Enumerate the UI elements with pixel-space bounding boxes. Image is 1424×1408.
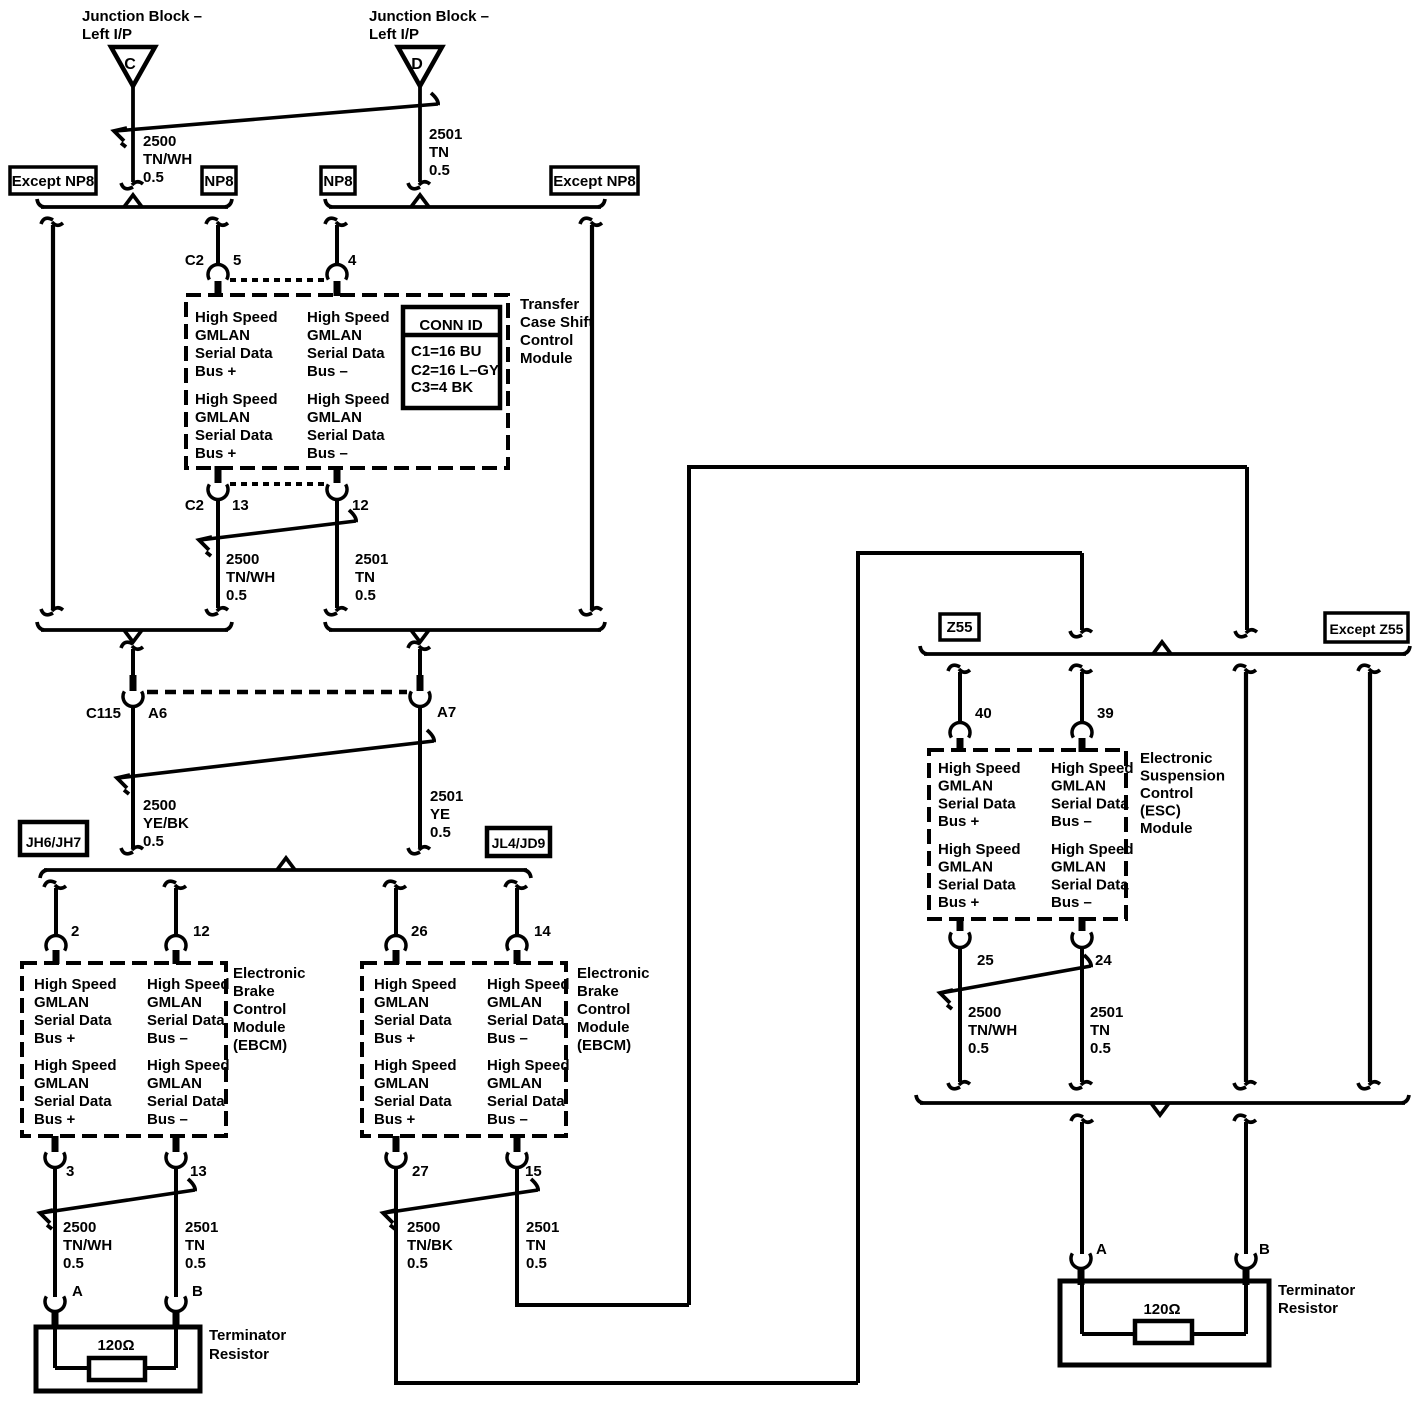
hook wire pin14: [505, 881, 517, 887]
svg-text:Case Shift: Case Shift: [520, 314, 593, 331]
CONN ID box: [403, 307, 500, 408]
dashed connector line C115: [147, 690, 407, 695]
wire to C115 A7: [418, 649, 422, 677]
svg-text:High Speed: High Speed: [34, 1057, 117, 1074]
svg-text:Resistor: Resistor: [1278, 1300, 1338, 1317]
svg-text:TN/WH: TN/WH: [226, 569, 275, 586]
wire 2500 from C: [131, 85, 135, 182]
svg-text:NP8: NP8: [323, 173, 352, 190]
svg-text:2500: 2500: [407, 1219, 440, 1236]
svg-text:Except NP8: Except NP8: [553, 173, 636, 190]
hook wire pin39: [1070, 665, 1082, 671]
connector cup pin 13b: [173, 1136, 180, 1152]
svg-text:24: 24: [1095, 952, 1112, 969]
hook wire pin2: [44, 881, 56, 887]
svg-text:0.5: 0.5: [429, 162, 450, 179]
svg-text:GMLAN: GMLAN: [1051, 859, 1106, 876]
hook end bypass right: [1358, 1083, 1370, 1089]
connector cup pin 3: [52, 1136, 59, 1152]
svg-text:Left I/P: Left I/P: [369, 26, 419, 43]
svg-text:12: 12: [352, 497, 369, 514]
connector cup C115 A6: [123, 691, 143, 706]
hook end of wire D: [408, 183, 420, 189]
svg-text:(EBCM): (EBCM): [233, 1037, 287, 1054]
svg-text:NP8: NP8: [204, 173, 233, 190]
svg-text:High Speed: High Speed: [147, 976, 230, 993]
svg-text:0.5: 0.5: [407, 1255, 428, 1272]
wire 2501 from pin12: [335, 499, 339, 608]
svg-text:GMLAN: GMLAN: [487, 1075, 542, 1092]
svg-text:Serial Data: Serial Data: [147, 1093, 225, 1110]
svg-text:2: 2: [71, 923, 79, 940]
svg-text:Module: Module: [1140, 820, 1193, 837]
svg-text:15: 15: [525, 1163, 542, 1180]
svg-text:Terminator: Terminator: [209, 1327, 286, 1344]
terminator resistor box 1: [36, 1327, 200, 1391]
svg-text:Serial Data: Serial Data: [1051, 876, 1129, 893]
svg-text:Control: Control: [233, 1001, 286, 1018]
svg-text:0.5: 0.5: [226, 587, 247, 604]
svg-text:Control: Control: [1140, 785, 1193, 802]
svg-text:0.5: 0.5: [968, 1040, 989, 1057]
hook end esc right: [1070, 1083, 1082, 1089]
wire 2501 TN esc: [1080, 947, 1084, 1082]
wire to C115 A6: [131, 649, 135, 677]
wire to pin 39: [1080, 672, 1084, 723]
svg-text:Bus +: Bus +: [34, 1111, 76, 1128]
svg-text:Junction Block –: Junction Block –: [369, 8, 489, 25]
svg-text:High Speed: High Speed: [938, 841, 1021, 858]
svg-text:2500: 2500: [143, 797, 176, 814]
svg-text:Serial Data: Serial Data: [195, 345, 273, 362]
connector arch pin 39: [1072, 722, 1092, 737]
svg-text:Electronic: Electronic: [1140, 750, 1213, 767]
svg-text:Serial Data: Serial Data: [147, 1012, 225, 1029]
svg-text:TN: TN: [185, 1237, 205, 1254]
svg-text:Serial Data: Serial Data: [938, 795, 1016, 812]
wire to pin 12: [174, 888, 178, 936]
svg-text:2500: 2500: [226, 551, 259, 568]
wire 2500 from pin13: [216, 499, 220, 608]
hook wire to pin5: [206, 218, 218, 224]
dotted connector line C2 top: [230, 278, 326, 282]
svg-text:GMLAN: GMLAN: [487, 994, 542, 1011]
svg-text:High Speed: High Speed: [487, 976, 570, 993]
svg-text:Except Z55: Except Z55: [1330, 621, 1404, 637]
wire 2501 YE: [418, 706, 422, 848]
svg-text:High Speed: High Speed: [147, 1057, 230, 1074]
connector arch pin 5: [208, 264, 228, 279]
svg-text:High Speed: High Speed: [374, 1057, 457, 1074]
wire 2500 TN/WH esc: [958, 947, 962, 1082]
wire 2500 TN/BK route: [394, 1167, 398, 1381]
svg-text:TN: TN: [1090, 1022, 1110, 1039]
svg-text:Brake: Brake: [233, 983, 275, 1000]
EBCM box 2: [362, 963, 566, 1136]
svg-text:High Speed: High Speed: [1051, 760, 1134, 777]
option box JH6/JH7: [20, 822, 87, 855]
wire to pin 5: [216, 225, 220, 264]
svg-text:Except NP8: Except NP8: [12, 173, 95, 190]
crossover arrow mid: [200, 521, 356, 540]
svg-text:GMLAN: GMLAN: [195, 327, 250, 344]
resistor 120 ohm 2: [1135, 1321, 1192, 1343]
ESC module box: [929, 750, 1126, 919]
wire 2501 TN to B: [174, 1167, 178, 1297]
option box Except NP8 left: [10, 167, 96, 194]
svg-text:2501: 2501: [430, 788, 463, 805]
svg-text:High Speed: High Speed: [1051, 841, 1134, 858]
svg-text:39: 39: [1097, 705, 1114, 722]
brace splice S1 left: [41, 205, 228, 209]
wire to pin 14: [515, 888, 519, 936]
wire except z55 right bypass: [1368, 672, 1372, 1082]
svg-text:Electronic: Electronic: [233, 965, 306, 982]
svg-text:GMLAN: GMLAN: [938, 859, 993, 876]
option box Z55: [940, 614, 979, 640]
svg-text:TN: TN: [526, 1237, 546, 1254]
svg-text:120Ω: 120Ω: [97, 1337, 134, 1354]
svg-text:GMLAN: GMLAN: [34, 1075, 89, 1092]
svg-text:High Speed: High Speed: [195, 391, 278, 408]
svg-text:JL4/JD9: JL4/JD9: [492, 835, 546, 851]
hook end wire pin13: [206, 609, 218, 615]
wire to terminal A2: [1080, 1122, 1084, 1254]
hook wire A6: [121, 642, 133, 648]
svg-text:2500: 2500: [968, 1004, 1001, 1021]
svg-text:Bus –: Bus –: [147, 1030, 188, 1047]
hook wire except z55 left: [1234, 665, 1246, 671]
connector arch pin 4: [327, 264, 347, 279]
option box NP8 left: [202, 167, 236, 194]
svg-text:0.5: 0.5: [143, 833, 164, 850]
svg-text:YE: YE: [430, 806, 450, 823]
svg-text:5: 5: [233, 252, 241, 269]
svg-text:Module: Module: [520, 350, 573, 367]
crossover arrow EBCM1: [41, 1190, 195, 1213]
terminator 1 internal wires: [53, 1329, 57, 1368]
connector cup terminal B2: [1236, 1253, 1256, 1268]
svg-text:Terminator: Terminator: [1278, 1282, 1355, 1299]
svg-text:2500: 2500: [143, 133, 176, 150]
svg-text:Serial Data: Serial Data: [34, 1012, 112, 1029]
svg-text:Bus +: Bus +: [195, 363, 237, 380]
svg-text:2501: 2501: [1090, 1004, 1123, 1021]
option box Except NP8 right: [551, 167, 638, 194]
svg-text:C2: C2: [185, 252, 204, 269]
hook end of wire C: [121, 183, 133, 189]
svg-text:TN: TN: [429, 144, 449, 161]
svg-text:Bus –: Bus –: [1051, 813, 1092, 830]
svg-text:3: 3: [66, 1163, 74, 1180]
svg-text:Bus +: Bus +: [34, 1030, 76, 1047]
svg-text:40: 40: [975, 705, 992, 722]
svg-text:TN/WH: TN/WH: [968, 1022, 1017, 1039]
svg-text:(EBCM): (EBCM): [577, 1037, 631, 1054]
hook end right bypass: [580, 609, 592, 615]
svg-text:Control: Control: [520, 332, 573, 349]
svg-text:D: D: [411, 56, 423, 73]
svg-text:Bus +: Bus +: [374, 1030, 416, 1047]
hook wire terminal B2: [1234, 1115, 1246, 1121]
svg-text:High Speed: High Speed: [34, 976, 117, 993]
svg-text:Junction Block –: Junction Block –: [82, 8, 202, 25]
wire 2501 TN route: [515, 1167, 519, 1303]
svg-text:Left I/P: Left I/P: [82, 26, 132, 43]
connector cup C115 A7: [410, 691, 430, 706]
svg-text:B: B: [192, 1283, 203, 1300]
hook wire except z55 right: [1358, 665, 1370, 671]
svg-text:2501: 2501: [185, 1219, 218, 1236]
svg-text:GMLAN: GMLAN: [307, 327, 362, 344]
svg-text:High Speed: High Speed: [307, 391, 390, 408]
svg-text:0.5: 0.5: [63, 1255, 84, 1272]
hook wire pin12b: [164, 881, 176, 887]
wire to pin 4: [335, 225, 339, 264]
svg-text:Serial Data: Serial Data: [374, 1012, 452, 1029]
svg-text:GMLAN: GMLAN: [374, 994, 429, 1011]
connector cup terminal A1: [45, 1296, 65, 1311]
svg-text:C2=16 L–GY: C2=16 L–GY: [411, 362, 499, 379]
hook wire Except NP8 left: [41, 218, 53, 224]
transfer case module box: [186, 295, 508, 468]
wire to pin 40: [958, 672, 962, 723]
resistor 120 ohm 1: [89, 1358, 145, 1380]
svg-text:Bus +: Bus +: [195, 445, 237, 462]
connector cup terminal B1: [166, 1296, 186, 1311]
svg-text:0.5: 0.5: [430, 824, 451, 841]
hook end route TN: [1235, 631, 1247, 637]
svg-text:A: A: [1096, 1241, 1107, 1258]
hook wire terminal A2: [1071, 1115, 1083, 1121]
brace splice S1 right: [329, 205, 601, 209]
svg-text:120Ω: 120Ω: [1143, 1301, 1180, 1318]
wire to terminal B2: [1244, 1122, 1248, 1254]
svg-text:Module: Module: [233, 1019, 286, 1036]
svg-text:C1=16 BU: C1=16 BU: [411, 343, 481, 360]
svg-text:Serial Data: Serial Data: [487, 1093, 565, 1110]
terminator resistor box 2: [1060, 1281, 1269, 1365]
svg-text:2501: 2501: [429, 126, 462, 143]
svg-text:TN/WH: TN/WH: [63, 1237, 112, 1254]
svg-text:TN/WH: TN/WH: [143, 151, 192, 168]
svg-text:C3=4 BK: C3=4 BK: [411, 379, 473, 396]
svg-text:Brake: Brake: [577, 983, 619, 1000]
svg-text:Serial Data: Serial Data: [307, 427, 385, 444]
svg-text:TN/BK: TN/BK: [407, 1237, 453, 1254]
crossover arrow ESC: [941, 966, 1091, 993]
svg-text:Transfer: Transfer: [520, 296, 579, 313]
svg-text:13: 13: [190, 1163, 207, 1180]
svg-text:High Speed: High Speed: [307, 309, 390, 326]
option box NP8 right: [321, 167, 355, 194]
connector arch pin 40: [950, 722, 970, 737]
svg-text:Serial Data: Serial Data: [1051, 795, 1129, 812]
svg-text:0.5: 0.5: [185, 1255, 206, 1272]
svg-text:Serial Data: Serial Data: [938, 876, 1016, 893]
option box Except Z55: [1325, 613, 1408, 642]
connector arch pin 14: [507, 935, 527, 950]
wire 2501 from D: [418, 85, 422, 182]
svg-text:2501: 2501: [526, 1219, 559, 1236]
hook end bypass left: [1234, 1083, 1246, 1089]
svg-text:B: B: [1259, 1241, 1270, 1258]
connector cup pin 12: [334, 466, 341, 483]
svg-text:Serial Data: Serial Data: [195, 427, 273, 444]
brace splice S2 left: [41, 628, 228, 632]
svg-text:Suspension: Suspension: [1140, 768, 1225, 785]
crossover arrow top: [115, 104, 438, 131]
svg-text:Control: Control: [577, 1001, 630, 1018]
svg-text:C2: C2: [185, 497, 204, 514]
wire to pin 2: [54, 888, 58, 936]
svg-text:0.5: 0.5: [1090, 1040, 1111, 1057]
connector triangle D: [398, 47, 442, 86]
svg-text:High Speed: High Speed: [195, 309, 278, 326]
svg-text:Bus –: Bus –: [1051, 894, 1092, 911]
svg-text:Resistor: Resistor: [209, 1346, 269, 1363]
connector cup pin 13: [215, 466, 222, 483]
option box JL4/JD9: [487, 828, 550, 856]
connector cup pin 25: [957, 917, 964, 931]
connector cup terminal A2: [1071, 1253, 1091, 1268]
brace splice S3: [44, 868, 527, 872]
svg-text:GMLAN: GMLAN: [938, 778, 993, 795]
svg-text:JH6/JH7: JH6/JH7: [26, 834, 81, 850]
connector cup pin 15: [514, 1136, 521, 1152]
hook end esc left: [948, 1083, 960, 1089]
hook wire A7: [408, 642, 420, 648]
svg-text:13: 13: [232, 497, 249, 514]
svg-text:Bus +: Bus +: [938, 813, 980, 830]
brace splice S5: [920, 1101, 1405, 1105]
svg-text:Serial Data: Serial Data: [34, 1093, 112, 1110]
svg-text:0.5: 0.5: [355, 587, 376, 604]
svg-text:Bus +: Bus +: [938, 894, 980, 911]
svg-text:C: C: [124, 56, 136, 73]
hook wire Except NP8 right: [580, 218, 592, 224]
connector arch pin 26: [386, 935, 406, 950]
svg-text:Bus +: Bus +: [374, 1111, 416, 1128]
svg-text:GMLAN: GMLAN: [374, 1075, 429, 1092]
brace splice S2 right: [329, 628, 601, 632]
dotted connector line C2 bottom: [230, 482, 326, 486]
svg-text:12: 12: [193, 923, 210, 940]
hook end wire pin12: [325, 609, 337, 615]
wire to pin 26: [394, 888, 398, 936]
svg-text:GMLAN: GMLAN: [307, 409, 362, 426]
wire 2500 TN/WH to A: [53, 1167, 57, 1297]
svg-text:Serial Data: Serial Data: [374, 1093, 452, 1110]
svg-text:A: A: [72, 1283, 83, 1300]
svg-text:(ESC): (ESC): [1140, 803, 1181, 820]
svg-text:Electronic: Electronic: [577, 965, 650, 982]
svg-text:GMLAN: GMLAN: [34, 994, 89, 1011]
connector arch pin 12b: [166, 935, 186, 950]
svg-text:Bus –: Bus –: [487, 1030, 528, 1047]
connector cup pin 24: [1079, 917, 1086, 931]
hook end wire A6: [121, 848, 133, 854]
svg-text:Z55: Z55: [947, 619, 973, 636]
crossover arrow C115: [118, 741, 434, 778]
hook end left bypass: [41, 609, 53, 615]
crossover arrow EBCM2: [384, 1190, 538, 1213]
hook end route TN/BK: [1070, 631, 1082, 637]
svg-text:0.5: 0.5: [143, 169, 164, 186]
hook end wire A7: [408, 848, 420, 854]
svg-text:14: 14: [534, 923, 551, 940]
hook wire to pin4: [325, 218, 337, 224]
svg-text:CONN ID: CONN ID: [419, 317, 483, 334]
connector arch pin 2: [46, 935, 66, 950]
svg-text:Bus –: Bus –: [147, 1111, 188, 1128]
svg-text:A6: A6: [148, 705, 167, 722]
terminator 2 internal wires: [1080, 1283, 1084, 1334]
wire Except NP8 left bypass: [51, 225, 55, 610]
svg-text:Serial Data: Serial Data: [307, 345, 385, 362]
wire 2500 YE/BK: [131, 706, 135, 848]
connector cup pin 27: [393, 1136, 400, 1152]
svg-text:TN: TN: [355, 569, 375, 586]
svg-text:GMLAN: GMLAN: [147, 994, 202, 1011]
svg-text:High Speed: High Speed: [938, 760, 1021, 777]
hook wire pin26: [384, 881, 396, 887]
svg-text:0.5: 0.5: [526, 1255, 547, 1272]
svg-text:Module: Module: [577, 1019, 630, 1036]
svg-text:High Speed: High Speed: [374, 976, 457, 993]
svg-text:4: 4: [348, 252, 357, 269]
svg-text:Bus –: Bus –: [307, 363, 348, 380]
hook wire pin40: [948, 665, 960, 671]
brace splice S4: [924, 652, 1406, 656]
svg-text:25: 25: [977, 952, 994, 969]
connector triangle C: [111, 47, 155, 86]
svg-text:GMLAN: GMLAN: [1051, 778, 1106, 795]
svg-text:High Speed: High Speed: [487, 1057, 570, 1074]
svg-text:Bus –: Bus –: [307, 445, 348, 462]
wire Except NP8 right bypass: [590, 225, 594, 610]
svg-text:26: 26: [411, 923, 428, 940]
svg-text:Bus –: Bus –: [487, 1111, 528, 1128]
svg-text:27: 27: [412, 1163, 429, 1180]
svg-text:GMLAN: GMLAN: [195, 409, 250, 426]
svg-text:2500: 2500: [63, 1219, 96, 1236]
svg-text:C115: C115: [86, 705, 121, 722]
EBCM box 1: [22, 963, 226, 1136]
svg-text:Serial Data: Serial Data: [487, 1012, 565, 1029]
svg-text:GMLAN: GMLAN: [147, 1075, 202, 1092]
svg-text:A7: A7: [437, 704, 456, 721]
wire except z55 left bypass: [1244, 672, 1248, 1082]
svg-text:2501: 2501: [355, 551, 388, 568]
svg-text:YE/BK: YE/BK: [143, 815, 189, 832]
